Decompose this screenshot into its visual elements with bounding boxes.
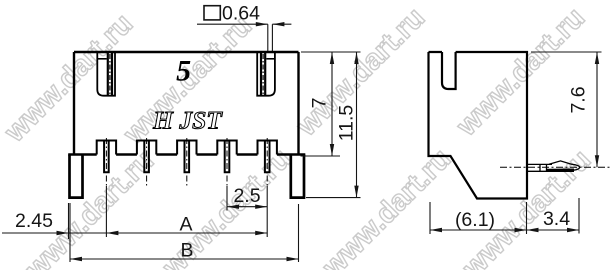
right mounting leg (291, 155, 304, 198)
dim B extension lines (70, 203, 299, 262)
bottom solder pin 2 (144, 141, 149, 173)
watermark row2 a (19, 145, 160, 270)
svg-text:3.4: 3.4 (543, 208, 570, 230)
pin slot 2 (137, 141, 156, 155)
top-right contact pin outline (257, 53, 275, 96)
watermark row2 d (456, 144, 597, 270)
bottom castellated edge (68, 153, 305, 155)
side view pin (528, 161, 580, 171)
pin slot 4 (217, 141, 236, 155)
side view body outline (429, 52, 528, 199)
svg-text:A: A (179, 214, 192, 236)
dim 3.4 line (527, 228, 580, 232)
svg-text:B: B (180, 240, 193, 262)
dim 2.45 + A line (2, 203, 267, 239)
dim 11.5 line (354, 52, 358, 198)
dim 7.6 extension line (531, 51, 602, 53)
connector body front view outline (68, 52, 305, 155)
dim 7.6 line (595, 52, 599, 167)
bottom solder pin 4 (225, 141, 230, 173)
dim 2.5 line (227, 205, 267, 209)
svg-text:5: 5 (176, 55, 191, 88)
watermark row2 c (316, 143, 457, 270)
svg-text:www.dart.ru: www.dart.ru (290, 2, 431, 143)
svg-text:www.dart.ru: www.dart.ru (19, 145, 160, 270)
bottom solder pin 3 (185, 141, 190, 173)
top-left contact pin outline (97, 53, 115, 96)
watermark row1 a (0, 8, 139, 149)
svg-text:11.5: 11.5 (336, 105, 358, 142)
pin 4 centerline (226, 138, 228, 186)
svg-text:H JST: H JST (152, 106, 223, 135)
pin slot 5 (258, 141, 277, 155)
watermark row1 d (450, 2, 591, 143)
pin 5 centerline (266, 138, 268, 186)
watermark row1 c (290, 2, 431, 143)
dim 7 extension lines (301, 52, 361, 198)
dim 2.5 extension lines (106, 186, 267, 237)
svg-text:7: 7 (309, 98, 331, 109)
dim 0.64 square symbol (204, 6, 220, 20)
watermark row2 b (156, 143, 297, 270)
svg-text:2.5: 2.5 (233, 185, 260, 207)
dim (6.1) and 3.4 extension lines (430, 198, 579, 234)
top-left contact pin metal bar (108, 53, 112, 95)
pin slot 3 (177, 141, 196, 155)
dim B line (70, 257, 299, 261)
dim 0.64 line (197, 22, 291, 51)
pin 3 centerline (186, 138, 188, 186)
top-right contact pin metal bar (261, 53, 265, 95)
svg-text:www.dart.ru: www.dart.ru (316, 143, 457, 270)
bottom solder pin 5 (265, 141, 270, 173)
pin slot 1 (97, 141, 116, 155)
watermark row1 b (117, 10, 258, 151)
svg-text:2.45: 2.45 (15, 210, 53, 232)
svg-text:www.dart.ru: www.dart.ru (450, 2, 591, 143)
svg-text:7.6: 7.6 (568, 86, 590, 113)
left mounting leg (70, 155, 83, 198)
dim (6.1) line (430, 228, 527, 232)
svg-text:(6.1): (6.1) (455, 209, 495, 231)
pin 1 centerline (105, 138, 107, 186)
pin 2 centerline (146, 138, 148, 186)
dim 7 line (330, 52, 334, 156)
bottom solder pin 1 (104, 141, 109, 173)
svg-text:0.64: 0.64 (222, 3, 260, 25)
side view pin centerline (500, 166, 612, 168)
